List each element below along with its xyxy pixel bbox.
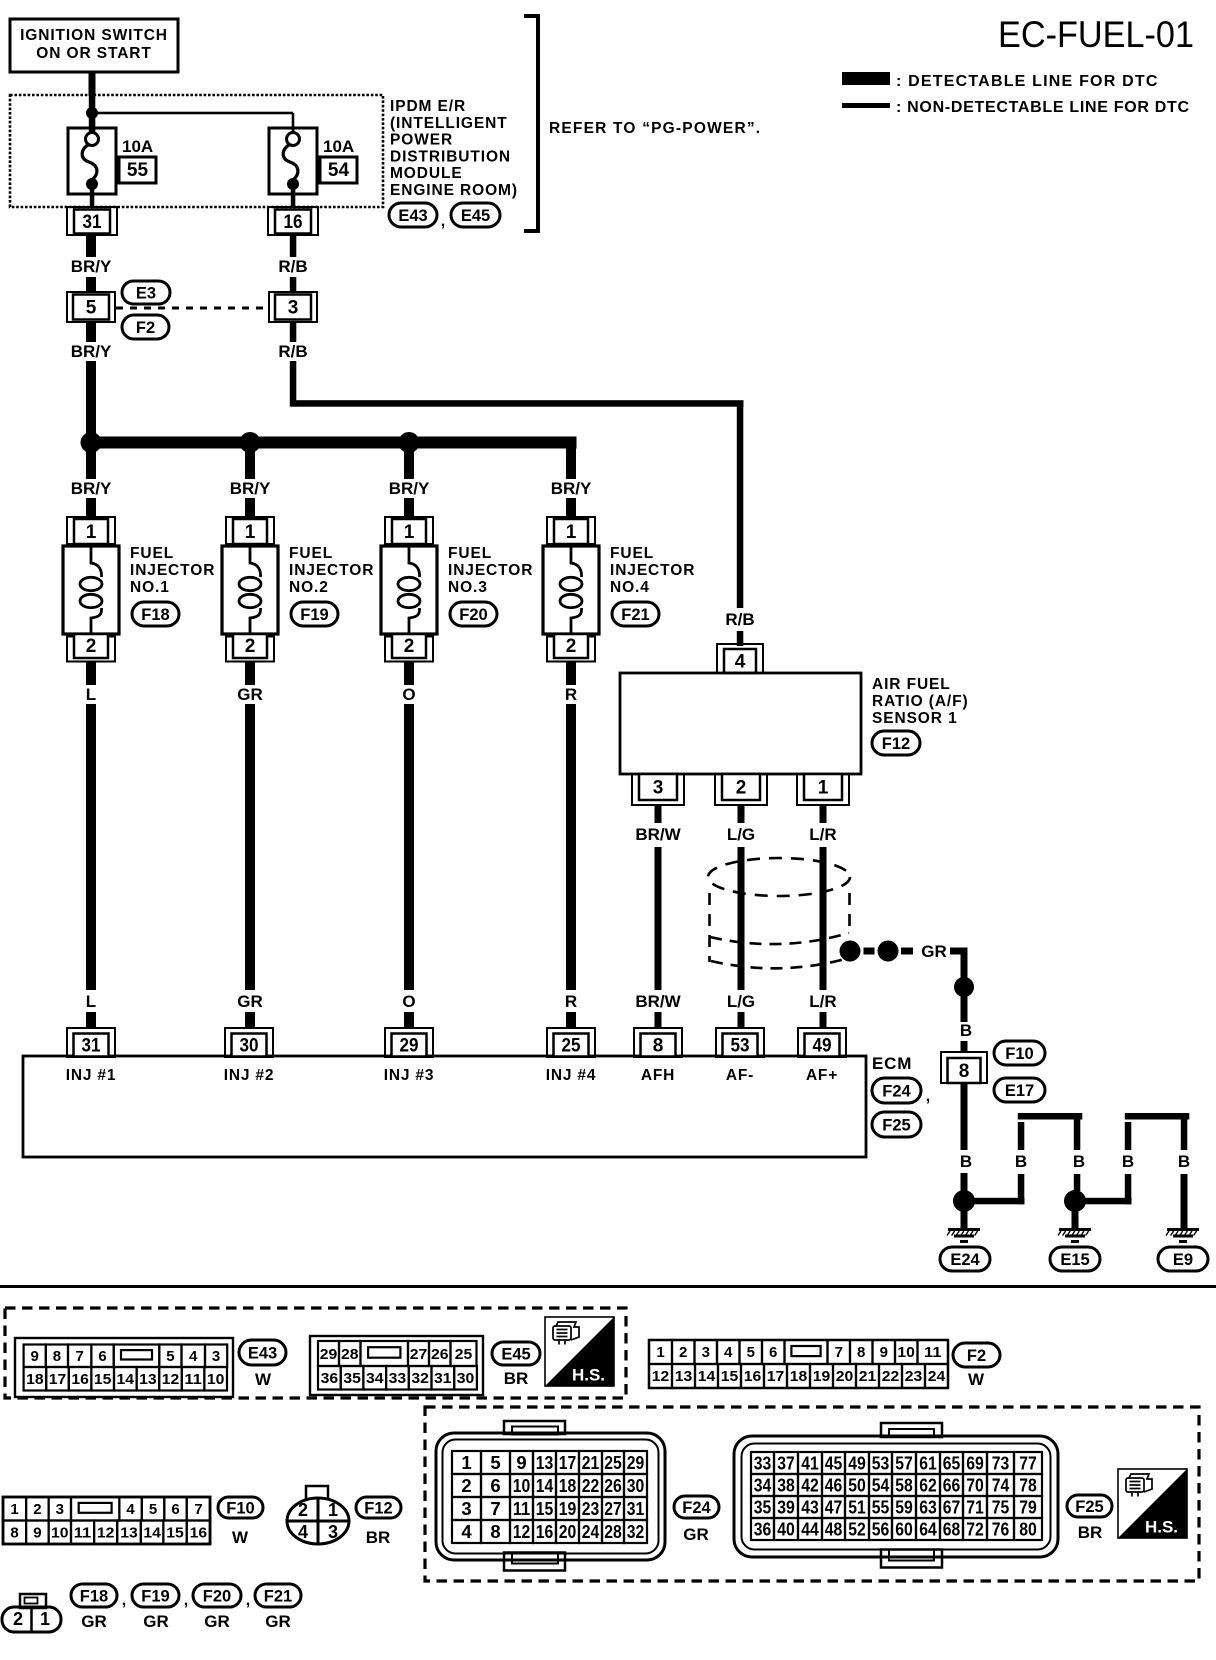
svg-text:71: 71 [966, 1497, 984, 1518]
svg-text:9: 9 [880, 1344, 888, 1361]
svg-text:59: 59 [895, 1497, 913, 1518]
svg-text:55: 55 [872, 1497, 890, 1518]
svg-text:9: 9 [516, 1452, 526, 1473]
svg-text:27: 27 [410, 1346, 428, 1363]
svg-text:5: 5 [149, 1501, 157, 1518]
svg-text:31: 31 [434, 1370, 452, 1387]
wire BR/Y down to bus [86, 361, 96, 437]
svg-text:67: 67 [943, 1497, 961, 1518]
svg-text:15: 15 [721, 1368, 739, 1385]
connector F25 grid [751, 1452, 774, 1474]
svg-text:INJECTOR: INJECTOR [289, 562, 374, 579]
svg-text:2: 2 [566, 636, 577, 657]
svg-text:REFER TO “PG-POWER”.: REFER TO “PG-POWER”. [549, 120, 761, 137]
svg-text:5: 5 [747, 1344, 755, 1361]
svg-text:2: 2 [33, 1501, 41, 1518]
svg-text:15: 15 [536, 1498, 554, 1519]
svg-text:SENSOR 1: SENSOR 1 [872, 710, 958, 727]
H.S. logo 1 [545, 1317, 614, 1386]
svg-text:(INTELLIGENT: (INTELLIGENT [390, 115, 508, 132]
svg-text:47: 47 [825, 1497, 843, 1518]
svg-text:B: B [1015, 1152, 1027, 1171]
svg-text:GR: GR [237, 685, 263, 704]
svg-text:58: 58 [895, 1475, 913, 1496]
svg-text:8: 8 [959, 1061, 970, 1082]
svg-text:17: 17 [559, 1452, 577, 1473]
svg-text:52: 52 [848, 1519, 866, 1540]
IPDM pin 16 [268, 207, 318, 235]
connector ref F10 detail [218, 1497, 263, 1518]
svg-text:L/R: L/R [809, 825, 836, 844]
svg-text:E45: E45 [461, 207, 490, 225]
svg-text:F19: F19 [141, 1587, 169, 1605]
svg-text:6: 6 [490, 1475, 500, 1496]
svg-text:B: B [1178, 1152, 1190, 1171]
svg-text:61: 61 [919, 1453, 937, 1474]
svg-text:: NON-DETECTABLE LINE FOR DTC: : NON-DETECTABLE LINE FOR DTC [896, 99, 1190, 116]
svg-text:ON OR START: ON OR START [36, 45, 152, 62]
svg-text:35: 35 [754, 1497, 772, 1518]
svg-text:12: 12 [652, 1368, 670, 1385]
svg-text:66: 66 [943, 1475, 961, 1496]
svg-text:75: 75 [992, 1497, 1010, 1518]
svg-text:3: 3 [653, 778, 664, 799]
svg-text:F24: F24 [882, 1082, 911, 1100]
svg-text:10A: 10A [323, 137, 354, 156]
svg-text:NO.2: NO.2 [289, 579, 329, 596]
wire fuse 54 to pin 16 [291, 188, 296, 208]
svg-text:13: 13 [139, 1371, 157, 1388]
injector NO.4 coil [571, 546, 582, 577]
svg-text:1: 1 [10, 1501, 18, 1518]
ground ref E9 [1158, 1247, 1208, 1271]
BR/Y bus line [86, 437, 577, 449]
svg-text:F20: F20 [459, 606, 487, 624]
svg-text:FUEL: FUEL [130, 545, 174, 562]
separator line [0, 1285, 1216, 1288]
svg-text:GR: GR [204, 1612, 230, 1631]
svg-text:20: 20 [559, 1521, 577, 1542]
connector ref F12 [872, 731, 920, 755]
connector F24 pinout [436, 1433, 665, 1560]
svg-text:16: 16 [284, 212, 303, 233]
svg-text:6: 6 [98, 1348, 106, 1365]
wire R/B below connector [290, 322, 297, 342]
connector F24 bottom tab [504, 1553, 565, 1571]
wire to injector NO.4 pin 1 [566, 498, 576, 518]
svg-text:O: O [402, 992, 415, 1011]
ECM pin 29 [385, 1028, 433, 1057]
svg-text:BR/Y: BR/Y [71, 479, 112, 498]
sensor pin 1 [797, 774, 849, 805]
svg-text:E45: E45 [501, 1345, 530, 1363]
ECM pin 53 [716, 1028, 764, 1057]
svg-text:80: 80 [1019, 1519, 1037, 1540]
wire branch to fuse 54 [92, 112, 293, 115]
wire to injector NO.1 pin 1 [86, 498, 96, 518]
svg-text:9: 9 [33, 1525, 41, 1542]
wire R/B horizontal run [290, 400, 744, 407]
wire bridge2 right vertical upper [1181, 1120, 1188, 1151]
svg-text:8: 8 [10, 1525, 18, 1542]
wire R/B to pin 4 [737, 631, 744, 646]
svg-text:73: 73 [992, 1453, 1010, 1474]
ignition switch box [10, 19, 178, 72]
svg-text:68: 68 [943, 1519, 961, 1540]
svg-text:10A: 10A [122, 137, 153, 156]
ground junction dot E24 [953, 1190, 975, 1212]
pigtail connector body [2, 1607, 61, 1632]
svg-text:22: 22 [882, 1368, 900, 1385]
svg-text:E43: E43 [398, 207, 427, 225]
svg-text:1: 1 [328, 1500, 338, 1520]
svg-text:23: 23 [905, 1368, 923, 1385]
svg-text:2: 2 [736, 778, 747, 799]
svg-text:54: 54 [328, 160, 350, 181]
svg-text:ENGINE ROOM): ENGINE ROOM) [390, 182, 518, 199]
svg-text:H.S.: H.S. [1145, 1517, 1178, 1536]
shield cylinder right side [848, 893, 851, 934]
connector ref F24 mid [872, 1078, 921, 1103]
wire bridge1 right vertical lower [1074, 1174, 1081, 1191]
svg-text:7: 7 [76, 1348, 84, 1365]
svg-text:63: 63 [919, 1497, 937, 1518]
svg-text:AF+: AF+ [806, 1067, 838, 1084]
svg-text:7: 7 [490, 1498, 500, 1519]
svg-text:B: B [960, 1152, 972, 1171]
wire GR to corner [950, 948, 968, 955]
svg-text:38: 38 [777, 1475, 795, 1496]
wire to injector NO.2 pin 1 [245, 498, 255, 518]
svg-text:55: 55 [127, 160, 149, 181]
svg-text:INJ #1: INJ #1 [66, 1067, 116, 1084]
svg-text:7: 7 [194, 1501, 202, 1518]
dashed connector link [116, 307, 266, 310]
svg-text:53: 53 [731, 1036, 750, 1057]
ground ref E15 [1050, 1247, 1100, 1271]
svg-text:1: 1 [656, 1344, 664, 1361]
svg-text:31: 31 [627, 1498, 645, 1519]
svg-text:L: L [86, 685, 96, 704]
svg-text:30: 30 [457, 1370, 475, 1387]
wire L/G to ECM pin [738, 1012, 745, 1029]
svg-text:18: 18 [559, 1475, 577, 1496]
wire R to ECM pin [566, 1012, 576, 1029]
wire L/G long run [738, 847, 745, 990]
svg-text:2: 2 [461, 1475, 471, 1496]
wire BR/Y drop injector NO.1 [86, 448, 96, 479]
wire GR corner down [961, 948, 968, 979]
svg-text:26: 26 [431, 1346, 449, 1363]
svg-text:50: 50 [848, 1475, 866, 1496]
shield ground dash 2 [901, 948, 913, 955]
ground symbol E9 [1167, 1228, 1199, 1231]
wire bridge1 left vertical upper [1018, 1122, 1025, 1150]
svg-text:21: 21 [859, 1368, 877, 1385]
svg-text:F18: F18 [141, 606, 169, 624]
svg-text:1: 1 [40, 1609, 50, 1629]
wire BR/W upper [655, 805, 662, 823]
svg-text:3: 3 [702, 1344, 710, 1361]
svg-text:8: 8 [857, 1344, 865, 1361]
svg-text:33: 33 [754, 1453, 772, 1474]
svg-text:BR/W: BR/W [635, 992, 681, 1011]
air fuel ratio sensor box [620, 673, 861, 774]
svg-text:12: 12 [162, 1371, 180, 1388]
fuel injector NO.1 box [63, 546, 119, 634]
svg-text:GR: GR [143, 1612, 169, 1631]
wire to ground E24 [961, 1211, 968, 1228]
connector ref F12 detail [356, 1497, 401, 1518]
svg-text:F25: F25 [882, 1116, 910, 1134]
connector ref F20 [450, 602, 497, 626]
injector NO.2 coil [250, 546, 261, 577]
connector ref E43 [389, 203, 437, 227]
svg-text:72: 72 [966, 1519, 984, 1540]
fuel injector NO.4 box [543, 546, 599, 634]
connector pin 3 E3/F2 [269, 292, 317, 322]
wire BR/Y drop injector NO.4 [566, 448, 576, 479]
svg-text:2: 2 [298, 1500, 308, 1520]
connector ref F21 [612, 602, 659, 626]
fuel injector NO.3 box [381, 546, 437, 634]
svg-text:30: 30 [627, 1475, 645, 1496]
air fuel ratio sensor pin 4 [717, 644, 763, 673]
svg-text:FUEL: FUEL [610, 545, 654, 562]
wire bridge2 left vertical lower [1125, 1174, 1132, 1204]
wire L/R to ECM pin [820, 1012, 827, 1029]
wire ignition to IPDM [89, 72, 96, 96]
svg-text:IGNITION SWITCH: IGNITION SWITCH [20, 27, 168, 44]
connector ref F21 [255, 1584, 301, 1607]
injector NO.2 pin 2 [226, 637, 274, 662]
svg-text:GR: GR [921, 942, 947, 961]
svg-text:14: 14 [536, 1475, 554, 1496]
svg-text:33: 33 [389, 1370, 407, 1387]
svg-text:39: 39 [777, 1497, 795, 1518]
svg-text:15: 15 [166, 1525, 184, 1542]
svg-text:49: 49 [848, 1453, 866, 1474]
ground symbol E24 [948, 1228, 980, 1231]
wire fuse 55 to pin 31 [90, 188, 95, 208]
connector F24 grid [452, 1451, 481, 1474]
svg-text:10: 10 [513, 1475, 531, 1496]
svg-text:E15: E15 [1060, 1251, 1089, 1269]
svg-text:48: 48 [825, 1519, 843, 1540]
svg-text:6: 6 [769, 1344, 777, 1361]
bus junction dot 1 [81, 432, 102, 453]
fuel injector NO.2 box [222, 546, 278, 634]
svg-text:7: 7 [835, 1344, 843, 1361]
junction dot GR/B [954, 977, 974, 997]
wire O to ECM pin [404, 1012, 414, 1029]
connector ref E45 [451, 203, 500, 227]
svg-text:INJECTOR: INJECTOR [130, 562, 215, 579]
svg-text:56: 56 [872, 1519, 890, 1540]
svg-text:19: 19 [559, 1498, 577, 1519]
svg-text:74: 74 [992, 1475, 1010, 1496]
wire L/R long run [820, 847, 827, 990]
svg-text:L: L [86, 992, 96, 1011]
svg-text:F19: F19 [300, 606, 328, 624]
svg-text:F2: F2 [136, 319, 155, 337]
svg-text:11: 11 [513, 1498, 531, 1519]
wire bridge1 horizontal from E24 dot [974, 1198, 1025, 1205]
svg-text:2: 2 [679, 1344, 687, 1361]
svg-text:L/G: L/G [727, 992, 755, 1011]
svg-text:36: 36 [321, 1370, 339, 1387]
connector detail dashed box 2 [425, 1407, 1199, 1581]
svg-text:27: 27 [604, 1498, 622, 1519]
svg-text:EC-FUEL-01: EC-FUEL-01 [998, 14, 1194, 55]
svg-text:4: 4 [126, 1501, 135, 1518]
svg-text:,: , [926, 1088, 930, 1105]
svg-text:14: 14 [117, 1371, 135, 1388]
svg-text:2: 2 [13, 1609, 23, 1629]
svg-text:36: 36 [754, 1519, 772, 1540]
ground ref E24 [940, 1247, 990, 1271]
ECM pin 25 [547, 1028, 595, 1057]
IPDM pin 31 [67, 207, 117, 235]
wire B below pin 8 [961, 1083, 968, 1150]
svg-text:62: 62 [919, 1475, 937, 1496]
injector NO.2 pin 1 [226, 517, 274, 544]
ECM box [23, 1056, 866, 1157]
svg-text:11: 11 [184, 1371, 202, 1388]
svg-text:BR: BR [366, 1528, 391, 1547]
svg-text:6: 6 [171, 1501, 179, 1518]
svg-text:9: 9 [31, 1348, 39, 1365]
ECM pin 49 [798, 1028, 846, 1057]
svg-text:24: 24 [582, 1521, 600, 1542]
wire L long run [86, 704, 96, 990]
svg-text:,: , [246, 1592, 250, 1609]
svg-text:19: 19 [813, 1368, 831, 1385]
svg-text:INJECTOR: INJECTOR [610, 562, 695, 579]
svg-text:65: 65 [943, 1453, 961, 1474]
svg-text:4: 4 [298, 1522, 308, 1542]
svg-text:26: 26 [604, 1475, 622, 1496]
shield ground dot 2 [878, 941, 899, 962]
svg-text:F21: F21 [264, 1587, 292, 1605]
svg-text:41: 41 [801, 1453, 819, 1474]
wire BR/Y from pin 31 [86, 235, 96, 257]
svg-text:GR: GR [237, 992, 263, 1011]
svg-text:31: 31 [83, 212, 102, 233]
wire bridge1 right vertical upper [1074, 1120, 1081, 1151]
wire B to label [961, 996, 968, 1022]
svg-text:13: 13 [675, 1368, 693, 1385]
injector NO.4 pin 1 [547, 517, 595, 544]
svg-text:64: 64 [919, 1519, 937, 1540]
wire BR/Y drop injector NO.3 [404, 448, 414, 479]
svg-text:16: 16 [71, 1371, 89, 1388]
svg-text:W: W [968, 1370, 985, 1389]
junction node inside IPDM [86, 107, 98, 119]
svg-text:45: 45 [825, 1453, 843, 1474]
connector F25 bottom tab [881, 1550, 942, 1568]
svg-text:10: 10 [207, 1371, 225, 1388]
svg-text:BR/W: BR/W [635, 825, 681, 844]
svg-text:78: 78 [1019, 1475, 1037, 1496]
svg-text:,: , [184, 1592, 188, 1609]
svg-text:25: 25 [562, 1036, 581, 1057]
svg-text:29: 29 [627, 1452, 645, 1473]
svg-text:BR/Y: BR/Y [551, 479, 592, 498]
ground junction dot E15 [1064, 1190, 1086, 1212]
ECM pin 30 [225, 1028, 273, 1057]
connector ref F24 detail [674, 1496, 719, 1518]
svg-text:51: 51 [848, 1497, 866, 1518]
svg-text:F2: F2 [967, 1347, 986, 1365]
connector ref F25 mid [872, 1112, 921, 1137]
svg-text:IPDM E/R: IPDM E/R [390, 98, 466, 115]
svg-text:42: 42 [801, 1475, 819, 1496]
svg-text:POWER: POWER [390, 132, 453, 149]
svg-text:BR: BR [1078, 1523, 1103, 1542]
svg-text:R/B: R/B [278, 257, 307, 276]
wire below injector R upper [566, 661, 576, 685]
wire R long run [566, 704, 576, 990]
connector E45 pinout [310, 1336, 483, 1395]
wire R/B down to sensor [737, 404, 744, 609]
wire O long run [404, 704, 414, 990]
shield ground dash [864, 948, 875, 955]
connector F25 pinout [734, 1436, 1058, 1557]
ground symbol E15 [1059, 1228, 1091, 1231]
svg-text:MODULE: MODULE [390, 165, 463, 182]
connector detail dashed box 1 [5, 1308, 626, 1398]
svg-text:ECM: ECM [872, 1054, 912, 1073]
svg-text:: DETECTABLE LINE FOR DTC: : DETECTABLE LINE FOR DTC [896, 73, 1159, 90]
svg-text:2: 2 [245, 636, 256, 657]
svg-text:3: 3 [461, 1498, 471, 1519]
wire bridge1 left vertical lower [1018, 1174, 1025, 1204]
svg-text:3: 3 [328, 1522, 338, 1542]
svg-text:14: 14 [698, 1368, 716, 1385]
svg-text:32: 32 [411, 1370, 429, 1387]
bus junction dot 2 [240, 432, 261, 453]
svg-text:BR/Y: BR/Y [389, 479, 430, 498]
svg-text:18: 18 [26, 1371, 44, 1388]
svg-text:11: 11 [924, 1344, 942, 1361]
svg-text:2: 2 [404, 636, 415, 657]
svg-text:,: , [122, 1592, 126, 1609]
svg-text:F12: F12 [364, 1499, 392, 1517]
injector NO.3 pin 2 [385, 637, 433, 662]
svg-text:3: 3 [56, 1501, 64, 1518]
legend non-detectable line sample [842, 103, 890, 108]
svg-text:F12: F12 [882, 735, 910, 753]
svg-text:L/R: L/R [809, 992, 836, 1011]
svg-text:28: 28 [604, 1521, 622, 1542]
sensor pin 2 [715, 774, 767, 805]
svg-text:25: 25 [604, 1452, 622, 1473]
svg-text:4: 4 [735, 652, 746, 673]
svg-text:37: 37 [777, 1453, 795, 1474]
svg-text:21: 21 [582, 1452, 600, 1473]
svg-text:R: R [565, 685, 577, 704]
connector ref E43 detail [239, 1340, 286, 1365]
svg-text:H.S.: H.S. [572, 1365, 605, 1384]
shield cylinder middle arc [710, 933, 849, 944]
svg-text:R/B: R/B [278, 342, 307, 361]
wire R/B down to corner [290, 361, 297, 407]
wire bridge2 horizontal from E15 dot [1085, 1198, 1132, 1205]
svg-text:46: 46 [825, 1475, 843, 1496]
svg-text:FUEL: FUEL [289, 545, 333, 562]
svg-text:34: 34 [754, 1475, 772, 1496]
